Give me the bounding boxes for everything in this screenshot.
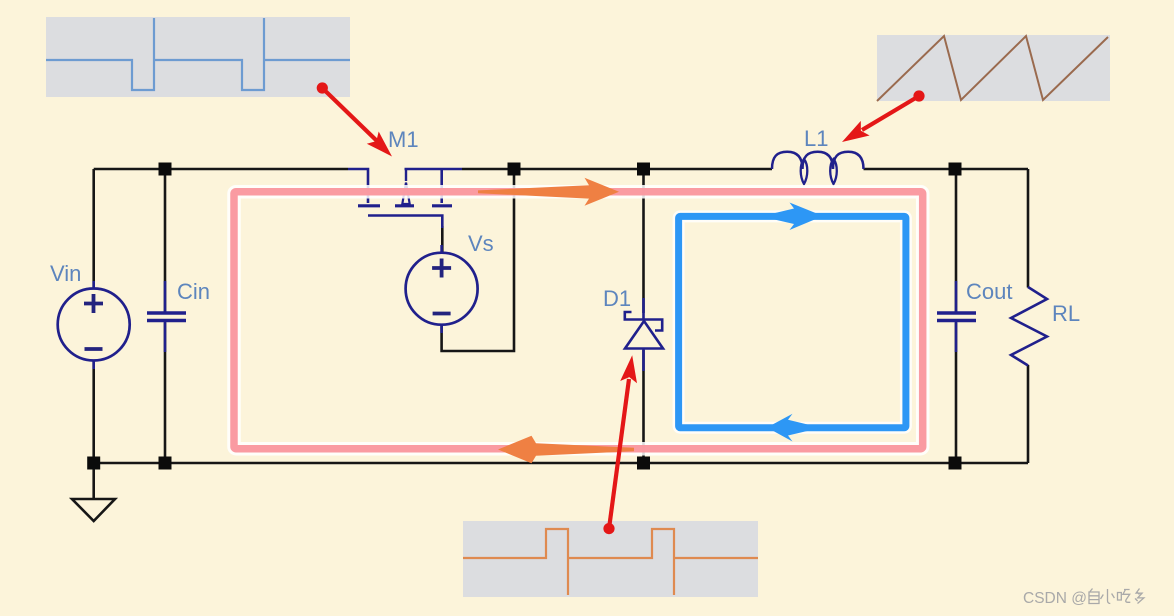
current loop 1 (pink, on-state path) (234, 192, 923, 449)
wire top rail right (L1 to RL) (864, 168, 1029, 171)
node junction bottom Cin (159, 457, 172, 470)
wire ground stem (92, 463, 95, 499)
current arrow orange bottom (leftward) (498, 436, 634, 463)
svg-text:D1: D1 (603, 286, 631, 311)
waveform inset box top-right (inductor current) (877, 35, 1110, 101)
current loop 2 (blue, off-state path) (679, 216, 906, 427)
current arrow blue bottom (leftward) (767, 414, 821, 442)
watermark glyphs (hand-drawn CJK) (1089, 589, 1144, 604)
svg-text:L1: L1 (804, 126, 828, 151)
node junction top Vs return (508, 163, 521, 176)
capacitor Cin (147, 281, 186, 352)
current arrow orange top (rightward) (478, 178, 619, 206)
wire RL bottom (1027, 365, 1030, 463)
wire Vin bottom (92, 361, 95, 464)
wire bottom rail (94, 462, 1028, 465)
wire RL top (1027, 169, 1030, 288)
wire top rail middle (M1 source to L1) (462, 168, 772, 171)
node junction bottom Vin (87, 457, 100, 470)
node junction top Cout (949, 163, 962, 176)
wire Cin bottom (164, 323, 167, 464)
waveform inset box bottom (diode current) (463, 521, 758, 597)
svg-text:RL: RL (1052, 301, 1080, 326)
transistor M1 (NMOS) (348, 169, 462, 228)
waveform trace ID (orange pulse wave) (463, 529, 758, 595)
callout arrow to M1 (from gate waveform) (317, 82, 392, 156)
ground (72, 499, 115, 521)
wire Cout bottom (955, 323, 958, 464)
wire Vin top (92, 169, 95, 289)
svg-text:CSDN @: CSDN @ (1023, 590, 1087, 607)
waveform trace IL (brown sawtooth) (877, 36, 1108, 101)
voltage source Vs (406, 245, 478, 333)
watermark CSDN (1023, 590, 1087, 607)
wire D1 anode (642, 350, 645, 463)
inductor L1 (772, 152, 864, 184)
node junction top D1 (switch node) (637, 163, 650, 176)
svg-text:Cout: Cout (966, 279, 1012, 304)
svg-text:Vin: Vin (50, 261, 81, 286)
wire top rail left (Vin to M1 drain) (94, 168, 348, 171)
svg-text:M1: M1 (388, 127, 419, 152)
waveform trace Vgs (blue square wave) (46, 18, 350, 90)
wire Vs gate (441, 226, 444, 253)
wire Vs return (442, 169, 514, 351)
capacitor Cout (937, 281, 976, 352)
diode D1 (schottky) (624, 298, 664, 371)
current arrow blue top (rightward) (761, 203, 823, 231)
node junction bottom Cout (949, 457, 962, 470)
callout arrow to L1 (from inductor current waveform) (842, 90, 925, 142)
callout arrow to D1 (from diode current waveform) (603, 355, 637, 534)
resistor RL (1011, 287, 1047, 366)
node junction top Cin (159, 163, 172, 176)
wire Cout top (955, 169, 958, 315)
svg-text:Cin: Cin (177, 279, 210, 304)
wire Cin top (164, 169, 167, 315)
wire D1 cathode (642, 169, 645, 313)
node junction bottom D1 (637, 457, 650, 470)
waveform inset box top-left (gate drive Vgs) (46, 17, 350, 97)
svg-text:Vs: Vs (468, 231, 494, 256)
voltage source Vin (58, 281, 130, 369)
